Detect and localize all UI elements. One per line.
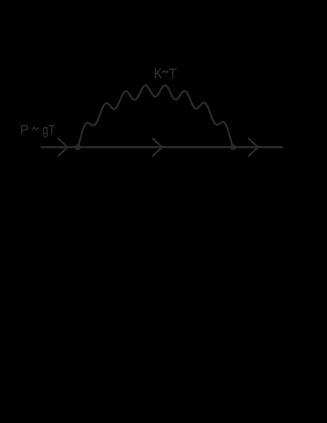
svg-text:P: P xyxy=(20,123,29,138)
svg-text:K: K xyxy=(154,66,163,81)
svg-text:T: T xyxy=(169,66,178,81)
svg-text:gT: gT xyxy=(42,123,55,138)
